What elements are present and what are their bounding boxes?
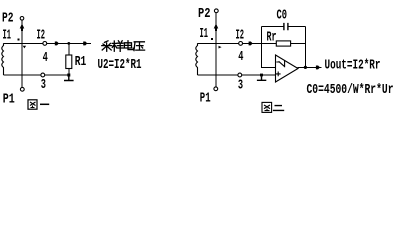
char 压 xyxy=(134,42,145,51)
svg-text:4: 4 xyxy=(238,49,243,65)
junction node R1 top (circuit 1) xyxy=(67,42,70,45)
svg-text:4: 4 xyxy=(43,50,48,66)
winding L1 secondary coil (circuit 1) xyxy=(2,43,4,75)
char 样 xyxy=(112,41,123,52)
node B output riser xyxy=(304,27,306,68)
wire primary vertical (circuit 2) xyxy=(215,13,217,87)
winding L2 secondary coil (circuit 2) xyxy=(196,43,198,75)
wire R1 top lead (circuit 1) xyxy=(68,43,70,55)
svg-text:I1: I1 xyxy=(200,26,209,42)
text 采样电压 sampling voltage caption xyxy=(102,41,145,52)
current arrow I2 on wire (circuit 1) xyxy=(55,42,59,46)
junction node output xyxy=(304,66,307,69)
svg-text:U2=I2*R1: U2=I2*R1 xyxy=(98,57,142,73)
junction node ground tap (circuit 2) xyxy=(260,74,263,77)
wire R1 bottom lead (circuit 1) xyxy=(68,69,70,76)
wire secondary top (circuit 2) xyxy=(198,42,239,44)
terminal P1 (circuit 1) xyxy=(20,87,24,91)
svg-text:Uout=I2*Rr: Uout=I2*Rr xyxy=(325,57,381,73)
current arrow I1 (circuit 2) xyxy=(214,24,219,32)
terminal 3 circle (circuit 2) xyxy=(238,73,242,77)
wire secondary top (circuit 1) xyxy=(4,42,44,44)
wire secondary top right (circuit 1) xyxy=(47,42,91,44)
wire op-amp output xyxy=(298,66,322,68)
op-amp U1 internal plus mark xyxy=(276,72,281,77)
svg-text:P2: P2 xyxy=(198,6,211,22)
current arrow I1 (circuit 1) xyxy=(20,24,25,32)
wire secondary bottom right (circuit 1) xyxy=(45,74,70,76)
output arrow Uout xyxy=(316,66,320,70)
svg-text:I2: I2 xyxy=(236,27,245,43)
node A inverting input riser xyxy=(262,27,276,68)
junction arrow mark (circuit 2) xyxy=(219,46,222,49)
svg-text:3: 3 xyxy=(238,78,243,94)
caption 图一 figure 1 xyxy=(28,100,49,109)
wire Rr to output node xyxy=(291,42,306,44)
svg-text:C0: C0 xyxy=(277,8,288,24)
junction node R1 bottom (circuit 1) xyxy=(67,74,70,77)
current arrow I2 on wire (circuit 2) xyxy=(249,42,253,46)
wire primary vertical (circuit 1) xyxy=(21,20,23,87)
op-amp U1 internal minus mark xyxy=(276,60,284,67)
caption 图二 figure 2 xyxy=(262,102,284,112)
resistor R1 xyxy=(66,55,72,69)
ground (circuit 1) xyxy=(64,77,74,81)
svg-text:I1: I1 xyxy=(3,27,12,43)
terminal 3 circle (circuit 1) xyxy=(41,73,45,77)
wire to op-amp input node (circuit 2) xyxy=(243,42,277,44)
terminal P2 (circuit 2) xyxy=(214,9,218,13)
wire secondary bottom (circuit 1) xyxy=(4,74,42,76)
capacitor C0 right wire xyxy=(288,26,305,28)
char 采 xyxy=(102,41,112,51)
terminal P2 (circuit 1) xyxy=(20,17,24,21)
capacitor C0 xyxy=(284,23,288,30)
wire secondary bottom (circuit 2) xyxy=(198,74,238,76)
svg-text:3: 3 xyxy=(41,77,46,93)
terminal 4 circle (circuit 1) xyxy=(43,42,47,46)
ground (circuit 2) xyxy=(257,76,266,80)
junction arrow mark (circuit 1) xyxy=(23,46,26,49)
svg-text:R1: R1 xyxy=(75,54,87,70)
svg-text:C0=4500/W*Rr*Ur: C0=4500/W*Rr*Ur xyxy=(307,82,394,98)
svg-text:P2: P2 xyxy=(2,11,14,27)
terminal P1 (circuit 2) xyxy=(214,87,218,91)
svg-text:Rr: Rr xyxy=(267,30,277,46)
resistor Rr xyxy=(276,41,290,46)
capacitor C0 left wire xyxy=(262,26,284,28)
wire terminal3 to op-amp plus input (circuit 2) xyxy=(242,74,276,76)
op-amp U1 xyxy=(276,55,299,82)
polarity dot (circuit 1) xyxy=(18,39,20,41)
svg-text:P1: P1 xyxy=(3,92,15,108)
polarity dot (circuit 2) xyxy=(211,38,213,40)
current arrow 2 on wire (circuit 1) xyxy=(83,42,87,46)
terminal 4 circle (circuit 2) xyxy=(239,42,243,46)
char 电 xyxy=(124,41,133,50)
svg-text:P1: P1 xyxy=(200,90,211,106)
